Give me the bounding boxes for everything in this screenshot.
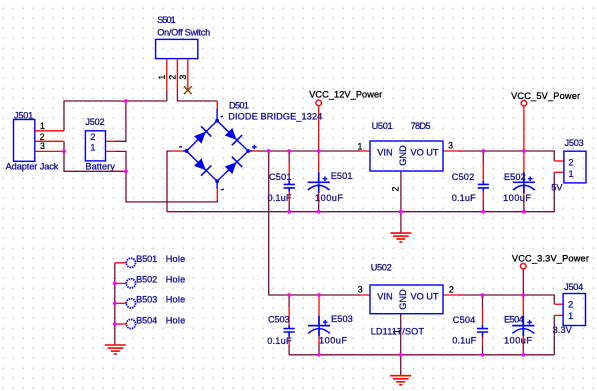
svg-text:UT: UT (426, 148, 439, 158)
svg-text:J501: J501 (14, 110, 33, 120)
pin: hole B501 stub (115, 262, 127, 264)
svg-text:C501: C501 (269, 172, 292, 182)
svg-text:B504: B504 (136, 315, 157, 325)
svg-text:Battery: Battery (85, 161, 115, 171)
svg-text:D501: D501 (229, 101, 249, 111)
svg-text:VO: VO (411, 148, 424, 158)
pin: U502 pin2 (443, 294, 460, 296)
svg-text:E502: E502 (504, 172, 526, 182)
wire: C501 lower lead bottom part (288, 201, 290, 212)
pin: C501 bottom lead (288, 191, 290, 202)
svg-text:1: 1 (568, 169, 573, 180)
junction: hole B504 (113, 322, 117, 326)
capacitor C504 plates (477, 325, 488, 337)
svg-text:GND: GND (398, 289, 408, 310)
wire: J502 pin1 down to bridge bottom (116, 151, 218, 202)
junction: E501 bottom on ground rail (317, 210, 321, 214)
pin: hole B504 stub (115, 323, 127, 325)
wire: E504 lower lead bottom part (522, 345, 524, 355)
junction: 12V rail to U502 feeder (267, 149, 271, 153)
wire: U502 GND lead (400, 314, 402, 376)
svg-text:100uF: 100uF (503, 193, 531, 203)
pin: E501 bottom lead (318, 193, 320, 202)
plus mark E501 (323, 176, 328, 181)
pin: bridge top (216, 101, 218, 109)
ground: holes chain (105, 345, 126, 354)
power VCC_3.3V circle (521, 263, 527, 269)
wire: C502 lower lead bottom part (482, 201, 484, 212)
connector J504 box (563, 294, 585, 326)
PINS_RED (35, 59, 564, 346)
capacitor E503 (electrolytic) (308, 316, 330, 337)
junction: battery rail corner (124, 169, 128, 173)
svg-text:DIODE BRIDGE_1324: DIODE BRIDGE_1324 (228, 111, 322, 121)
junction: C504 bottom on lower ground rail (481, 353, 485, 357)
svg-text:2: 2 (449, 285, 454, 295)
svg-text:0.1uF: 0.1uF (268, 193, 292, 203)
no-connect X on S501 pin3 (184, 86, 192, 94)
pin: C502 top lead (482, 163, 484, 181)
pin: S501 pin2 (176, 59, 178, 91)
plus mark E502 (528, 176, 533, 181)
junction: J501 pin3 (62, 150, 66, 154)
wire: C504 lower lead bottom part (482, 345, 484, 355)
connector J501 box (14, 120, 35, 162)
svg-text:2: 2 (167, 75, 177, 80)
switch S501 box (156, 39, 198, 58)
svg-text:Hole: Hole (166, 295, 186, 305)
pin: J504 pin2 (554, 303, 563, 305)
svg-text:E504: E504 (504, 314, 524, 324)
pin: S501 pin3 (187, 59, 189, 91)
mark tilde bottom vertex (221, 188, 224, 191)
pin: J502 pin1 (106, 150, 116, 152)
wire: S501 pin1 lower segment (166, 90, 168, 101)
svg-text:2: 2 (568, 299, 573, 310)
svg-text:3: 3 (358, 285, 363, 295)
wire: C502 upper lead top part (482, 151, 484, 163)
pin: E501 top lead (318, 151, 320, 172)
capacitor C501 plates (284, 181, 295, 192)
plus mark E503 (323, 320, 328, 325)
svg-text:Hole: Hole (166, 254, 186, 264)
junction: E504 bottom on lower ground rail (521, 353, 525, 357)
wire: feeder 12V down to U502 (269, 151, 360, 295)
svg-text:VCC_5V_Power: VCC_5V_Power (511, 91, 580, 101)
svg-text:J502: J502 (85, 117, 104, 127)
svg-text:100uF: 100uF (504, 336, 532, 346)
power VCC_5V circle (521, 100, 527, 106)
junction: U502 GND on lower ground rail (399, 353, 403, 357)
svg-text:VIN: VIN (377, 292, 392, 302)
svg-text:C504: C504 (453, 315, 476, 325)
pin: J501 pin1 (35, 130, 64, 132)
svg-text:E503: E503 (331, 314, 353, 324)
bridge polarity marks (179, 116, 257, 190)
hole B501 circle (126, 258, 135, 267)
HOLES B501-B504 (126, 258, 135, 328)
pin: hole B502 stub (115, 282, 127, 284)
pin: J503 pin2 (554, 160, 564, 162)
capacitor E501 (electrolytic) (308, 172, 330, 193)
pin: E503 top lead (318, 295, 320, 316)
svg-text:On/Off Switch: On/Off Switch (157, 28, 210, 38)
svg-text:J504: J504 (564, 282, 583, 292)
WIRES_MAROON (64, 90, 554, 375)
pin: E503 bottom lead (318, 336, 320, 345)
junction: C501 top (287, 149, 291, 153)
ground: under U502 (390, 376, 411, 385)
ground: under U501 (390, 233, 411, 242)
wire: C503 lower lead bottom part (288, 345, 290, 355)
diode D3 bottom-left (193, 157, 212, 176)
pin: C501 top lead (288, 163, 290, 181)
pin: E502 bottom lead (523, 193, 525, 202)
junction: E503 bottom on lower ground rail (317, 353, 321, 357)
pin: C503 top lead (288, 307, 290, 325)
bridge bottom stub (216, 181, 218, 189)
capacitor E502 (electrolytic) (513, 172, 535, 193)
junction: VCC_3.3V / E504 top (521, 293, 525, 297)
svg-text:C503: C503 (268, 314, 290, 324)
wire: J502 pin2 riser (116, 101, 126, 141)
svg-text:Hole: Hole (166, 315, 186, 325)
bridge top stub (216, 109, 218, 121)
svg-text:100uF: 100uF (319, 336, 347, 346)
svg-text:2: 2 (390, 187, 400, 192)
regulator U501 box (370, 141, 443, 171)
bridge left stub (183, 150, 187, 152)
wire: C504 upper lead top part (482, 295, 484, 307)
junction: C504 top (481, 293, 485, 297)
power VCC_12V circle (316, 100, 322, 106)
pin: VCC_12V riser (318, 106, 320, 151)
mark minus left vertex (179, 146, 182, 148)
pin: bridge left (171, 150, 182, 152)
pin: E504 bottom lead (522, 336, 524, 345)
pin: U501 pin3 (443, 150, 460, 152)
wire: bridge left vertex to ground rail (167, 151, 172, 212)
pin: J501 pin2 (35, 140, 64, 142)
svg-text:5V: 5V (551, 183, 563, 193)
junction: U501 GND on ground rail (399, 210, 403, 214)
svg-text:100uF: 100uF (315, 193, 343, 203)
svg-text:78D5: 78D5 (411, 121, 431, 131)
wire: J504 pin1 to bottom ground rail (553, 315, 555, 354)
svg-text:C502: C502 (452, 172, 475, 182)
bridge vertex dots (185, 119, 251, 183)
wire: 5V rail right of U501 to J503 pin2 (458, 151, 554, 161)
pin: J502 pin2 (106, 140, 116, 142)
svg-text:B502: B502 (136, 275, 157, 285)
mark tilde top vertex (221, 115, 224, 118)
svg-text:S501: S501 (157, 15, 176, 25)
svg-text:3.3V: 3.3V (553, 325, 573, 335)
svg-text:J503: J503 (565, 138, 584, 148)
svg-text:Hole: Hole (166, 275, 186, 285)
diode D2 top-right (223, 127, 242, 146)
wire: U501 GND lead (400, 171, 402, 233)
diode D4 bottom-right (223, 157, 242, 176)
svg-text:1: 1 (90, 142, 95, 153)
svg-text:LD1117/SOT: LD1117/SOT (371, 326, 425, 336)
svg-text:1: 1 (358, 142, 363, 152)
wire: E503 lower lead bottom part (318, 345, 320, 355)
svg-text:U502: U502 (371, 263, 392, 273)
wire: 3.3V rail right of U502 to J504 pin2 (458, 295, 554, 304)
wire: E502 lower lead bottom part (523, 201, 525, 212)
svg-text:VCC_3.3V_Power: VCC_3.3V_Power (512, 254, 589, 264)
wire: upper ground rail (167, 172, 554, 211)
capacitor C503 plates (284, 325, 295, 337)
svg-text:VIN: VIN (377, 148, 392, 158)
wire: E501 lower lead bottom part (318, 201, 320, 212)
svg-text:1: 1 (40, 121, 45, 131)
junction: C502 top (481, 149, 485, 153)
wire: J501 pin1 riser to top rail (64, 101, 167, 131)
svg-text:1: 1 (568, 311, 573, 322)
junction: hole B502 (113, 282, 117, 286)
svg-text:E501: E501 (331, 171, 353, 181)
wire: VCC_3.3V riser (522, 269, 524, 295)
pin: C504 bottom lead (482, 337, 484, 345)
capacitor C502 plates (478, 181, 489, 192)
svg-text:UT: UT (426, 292, 439, 302)
pin: J503 pin1 (554, 171, 564, 173)
pin: VCC_5V riser (523, 106, 525, 151)
pin: J501 pin3 (35, 150, 64, 152)
svg-text:3: 3 (178, 75, 188, 80)
svg-text:B501: B501 (136, 254, 157, 264)
svg-text:2: 2 (568, 158, 573, 169)
svg-text:0.1uF: 0.1uF (452, 336, 476, 346)
pin: J504 pin1 (554, 314, 563, 316)
hole B504 circle (126, 319, 135, 328)
pin: S501 pin1 (166, 59, 168, 91)
capacitor E504 (electrolytic) (512, 316, 534, 337)
bridge edges (183, 109, 252, 189)
pin: C504 top lead (482, 307, 484, 325)
wire: 12V rail left of U501 (258, 150, 360, 152)
pin: bridge bottom (216, 189, 218, 200)
pin: C502 bottom lead (482, 191, 484, 202)
svg-text:1: 1 (157, 75, 167, 80)
pin: U502 pin3 (360, 294, 370, 296)
svg-text:B503: B503 (136, 295, 157, 305)
svg-text:VCC_12V_Power: VCC_12V_Power (309, 89, 382, 99)
junction: C503 top (287, 293, 291, 297)
junction: E502 bottom on ground rail (522, 210, 526, 214)
pin: C503 bottom lead (288, 337, 290, 345)
junction: C502 bottom on ground rail (481, 210, 485, 214)
regulator U502 box (370, 285, 443, 314)
bridge right stub (248, 150, 252, 152)
svg-text:3: 3 (448, 141, 453, 151)
wire: J501 pin2/pin3 down to battery rail (64, 141, 126, 171)
connector J503 box (564, 151, 586, 183)
svg-text:GND: GND (398, 145, 408, 166)
diode D1 top-left (193, 126, 212, 145)
wire: C503 upper lead top part (288, 295, 290, 307)
wire: C501 upper lead top part (288, 151, 290, 163)
wire: hole chain vertical (114, 263, 116, 345)
wire: S501 pin2 to bridge top (177, 90, 217, 101)
junction: J502 pin2 at top rail (124, 99, 128, 103)
DIODE BRIDGE D501 (179, 109, 257, 191)
svg-text:0.1uF: 0.1uF (452, 193, 476, 203)
svg-text:3: 3 (40, 141, 45, 151)
svg-text:Adapter Jack: Adapter Jack (6, 161, 59, 171)
pin: U501 pin1 (360, 150, 370, 152)
mark plus right vertex (252, 145, 257, 150)
junction: C501 bottom on ground rail (287, 210, 291, 214)
wire: lower ground rail (289, 354, 554, 356)
pin: E504 top lead (522, 295, 524, 316)
pin: bridge right (252, 150, 259, 152)
junction: E503 top (317, 293, 321, 297)
plus mark E504 (527, 320, 532, 325)
junction: hole B503 (113, 301, 117, 305)
connector J502 box (85, 131, 105, 161)
junction: VCC_12V / E501 top (317, 149, 321, 153)
junction: VCC_5V / E502 top (522, 149, 526, 153)
pin: hole B503 stub (115, 302, 127, 304)
svg-text:U501: U501 (372, 121, 393, 131)
svg-text:0.1uF: 0.1uF (267, 336, 292, 346)
hole B503 circle (126, 299, 135, 308)
svg-text:VO: VO (411, 292, 424, 302)
pin: E502 top lead (523, 151, 525, 172)
hole B502 circle (126, 279, 135, 288)
